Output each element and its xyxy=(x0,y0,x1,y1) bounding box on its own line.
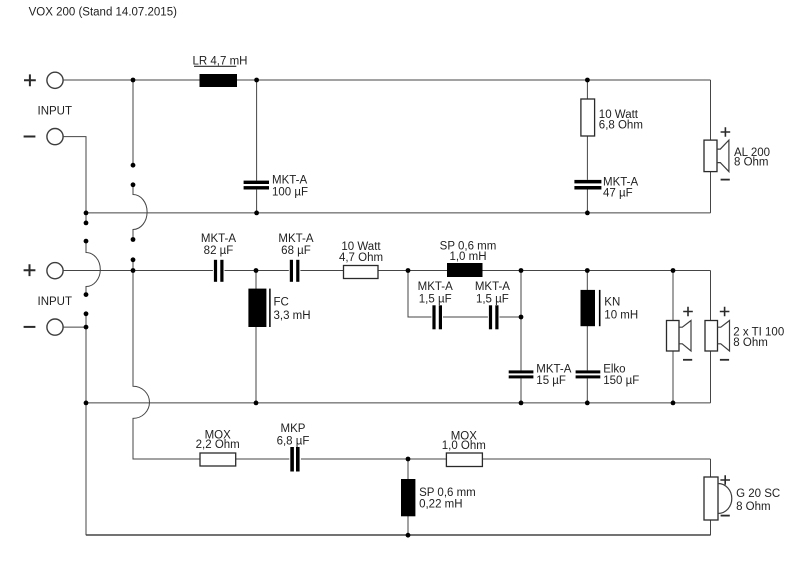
svg-text:MKT-A: MKT-A xyxy=(536,363,571,375)
resistor MOX 1,0 Ohm xyxy=(442,430,486,466)
node junction (587.4,212.9) xyxy=(585,211,590,216)
terminal + (top input) xyxy=(24,72,63,88)
svg-text:MKT-A: MKT-A xyxy=(475,281,510,293)
inductor SP 0,6 mm 0,22 mH xyxy=(401,479,476,516)
svg-text:MKT-A: MKT-A xyxy=(272,174,307,186)
capacitor MKT-A 15 uF xyxy=(509,363,572,387)
wire mid plus rail xyxy=(63,270,710,272)
speaker AL 200 xyxy=(704,127,770,179)
svg-text:LR 4,7 mH: LR 4,7 mH xyxy=(193,55,248,67)
svg-text:FC: FC xyxy=(274,296,289,308)
node junction (587.3,270.5) xyxy=(585,268,590,273)
node junction (133,80) xyxy=(131,78,136,83)
svg-text:150 µF: 150 µF xyxy=(603,375,639,387)
svg-text:Elko: Elko xyxy=(603,363,625,375)
svg-text:8 Ohm: 8 Ohm xyxy=(736,501,771,513)
svg-text:1,0 Ohm: 1,0 Ohm xyxy=(442,440,486,452)
wire AL200 speaker leads xyxy=(710,80,712,213)
resistor 10 Watt 6,8 Ohm xyxy=(581,99,643,136)
inductor KN 10 mH xyxy=(581,290,639,326)
capacitor MKT-A 82 uF xyxy=(201,233,236,282)
wire KN/Elko branch xyxy=(586,271,588,403)
svg-text:2,2 Ohm: 2,2 Ohm xyxy=(196,439,240,451)
wire mid minus lead xyxy=(63,326,86,328)
capacitor Elko 150 uF xyxy=(576,363,640,387)
inductor FC 3,3 mH xyxy=(248,289,310,327)
wire TI100 speaker1 leads xyxy=(672,271,674,403)
svg-text:MKT-A: MKT-A xyxy=(278,233,313,245)
svg-text:82 µF: 82 µF xyxy=(204,245,234,257)
node junction (133,270.5) xyxy=(131,268,136,273)
svg-text:G 20 SC: G 20 SC xyxy=(736,488,780,500)
speaker TI 100 first xyxy=(667,307,693,360)
svg-text:3,3 mH: 3,3 mH xyxy=(274,310,311,322)
svg-text:4,7 Ohm: 4,7 Ohm xyxy=(339,252,383,264)
node junction (408,459) xyxy=(406,457,411,462)
svg-text:0,22 mH: 0,22 mH xyxy=(419,498,462,510)
jumper dots x86 xyxy=(84,221,89,317)
wire tweeter bottom rail xyxy=(86,534,711,536)
node junction (521,317) xyxy=(519,315,524,320)
wire link x133 top jumpers and hop over top bottom rail xyxy=(133,80,147,271)
node junction (256.6,212.9) xyxy=(254,211,259,216)
inductor LR 4,7 mH xyxy=(193,55,248,87)
svg-text:100 µF: 100 µF xyxy=(272,187,308,199)
wire tweeter plus rail xyxy=(134,458,711,460)
resistor 10 Watt 4,7 Ohm xyxy=(339,241,383,279)
svg-text:10 mH: 10 mH xyxy=(604,310,638,322)
svg-text:1,5 µF: 1,5 µF xyxy=(419,293,452,305)
node junction (256,270.5) xyxy=(254,268,259,273)
svg-text:47 µF: 47 µF xyxy=(603,188,633,200)
wire resistor/cap47 branch xyxy=(586,80,588,213)
inductor SP 0,6 mm 1,0 mH xyxy=(440,241,497,277)
svg-text:MKT-A: MKT-A xyxy=(603,176,638,188)
wire top bottom rail xyxy=(86,212,711,214)
wire 1,5uF sub loop xyxy=(408,271,521,403)
terminal - (mid input) xyxy=(24,319,64,335)
node junction (86,327.1) xyxy=(84,325,89,330)
capacitor MKT-A 1,5 uF second xyxy=(475,281,510,329)
resistor MOX 2,2 Ohm xyxy=(196,429,240,466)
svg-text:68 µF: 68 µF xyxy=(281,245,311,257)
svg-text:15 µF: 15 µF xyxy=(536,375,566,387)
node junction (521,402.9) xyxy=(519,401,524,406)
node junction (673,402.9) xyxy=(671,401,676,406)
svg-text:SP 0,6 mm: SP 0,6 mm xyxy=(419,487,476,499)
terminal + (mid input) xyxy=(24,263,64,279)
wire G20SC speaker leads xyxy=(710,459,712,535)
speaker G 20 SC xyxy=(704,475,780,520)
capacitor MKP 6,8 uF xyxy=(277,423,310,472)
svg-text:INPUT: INPUT xyxy=(38,105,73,117)
svg-text:6,8 Ohm: 6,8 Ohm xyxy=(599,119,643,131)
node junction (256.6,80) xyxy=(254,78,259,83)
svg-text:8 Ohm: 8 Ohm xyxy=(733,337,768,349)
capacitor MKT-A 100 uF xyxy=(244,174,308,198)
node junction (521,270.5) xyxy=(519,268,524,273)
svg-text:8 Ohm: 8 Ohm xyxy=(734,157,769,169)
wire SP 0,22 branch xyxy=(407,459,409,535)
svg-text:6,8 µF: 6,8 µF xyxy=(277,436,310,448)
node junction (86,402.9) xyxy=(84,401,89,406)
wire top minus lead xyxy=(63,137,86,213)
node junction (408,535.2) xyxy=(406,533,411,538)
node junction (256,402.9) xyxy=(254,401,259,406)
svg-text:KN: KN xyxy=(604,297,620,309)
node junction (587.4,80) xyxy=(585,78,590,83)
capacitor MKT-A 1,5 uF first xyxy=(418,281,453,329)
jumper dots x133 top section xyxy=(131,163,136,262)
svg-text:INPUT: INPUT xyxy=(38,296,73,308)
node junction (408,270.5) xyxy=(406,268,411,273)
svg-text:MKT-A: MKT-A xyxy=(201,233,236,245)
speaker TI 100 second xyxy=(705,307,784,360)
wire FC branch xyxy=(255,271,257,403)
node junction (673,270.5) xyxy=(671,268,676,273)
capacitor MKT-A 47 uF xyxy=(574,176,638,199)
wire top plus rail xyxy=(63,79,710,81)
wire TI100 speaker2 leads xyxy=(710,271,712,403)
wire link x86 with jumper gaps and hop over mid plus rail xyxy=(86,213,711,535)
wire mid bottom rail xyxy=(86,402,711,404)
svg-text:MKP: MKP xyxy=(281,423,306,435)
node junction (86,212.9) xyxy=(84,211,89,216)
svg-text:VOX 200 (Stand 14.07.2015): VOX 200 (Stand 14.07.2015) xyxy=(29,7,177,19)
terminal - (top input) xyxy=(24,129,64,145)
node junction (587.3,402.9) xyxy=(585,401,590,406)
wire link x133 mid to bottom with hop over mid bottom rail xyxy=(133,271,711,460)
svg-text:MKT-A: MKT-A xyxy=(418,281,453,293)
svg-text:1,5 µF: 1,5 µF xyxy=(476,293,509,305)
svg-text:1,0 mH: 1,0 mH xyxy=(449,251,486,263)
wire cap100 branch xyxy=(256,80,258,213)
capacitor MKT-A 68 uF xyxy=(278,233,313,282)
